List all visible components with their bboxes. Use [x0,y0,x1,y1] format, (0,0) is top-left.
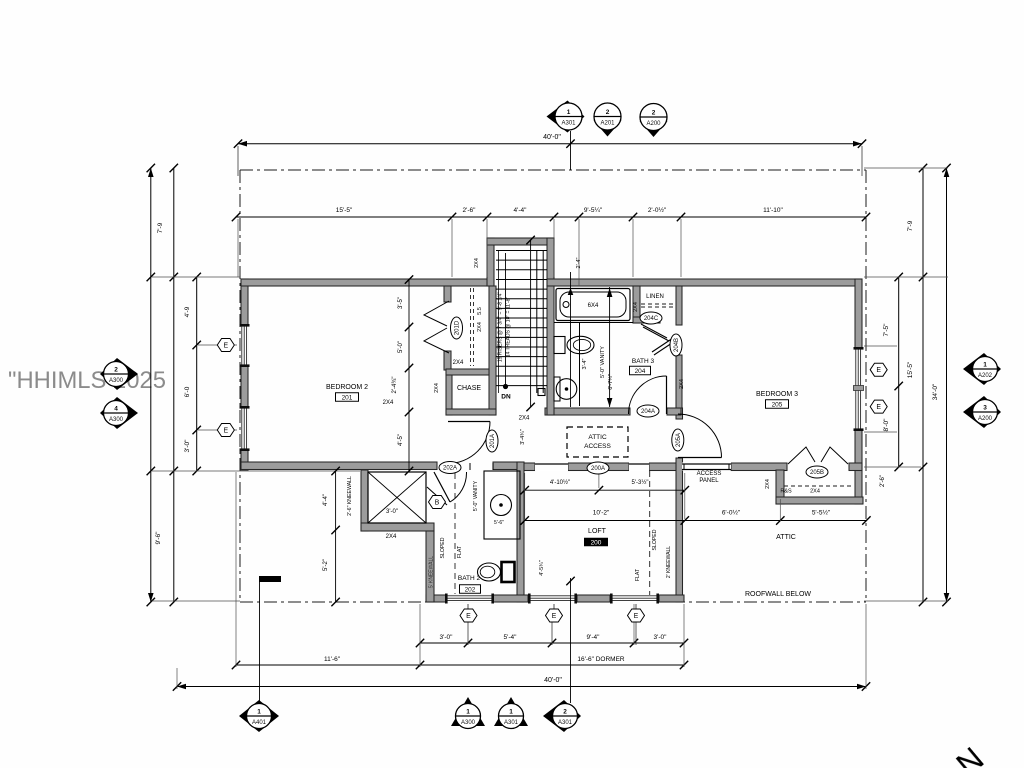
svg-text:A300: A300 [109,417,124,423]
svg-text:ATTIC: ATTIC [588,434,607,441]
svg-text:201: 201 [342,395,353,402]
svg-text:2'-6" KNEEWALL: 2'-6" KNEEWALL [347,476,353,516]
svg-text:FLAT: FLAT [457,545,463,558]
svg-text:5'-0": 5'-0" [398,341,404,353]
svg-text:5'-6": 5'-6" [494,520,504,526]
svg-text:2X4: 2X4 [383,400,394,406]
svg-text:5' KNEEWALL: 5' KNEEWALL [429,556,435,588]
svg-text:E: E [223,428,228,435]
svg-text:2'-0½": 2'-0½" [648,206,667,214]
svg-text:E: E [876,367,881,374]
svg-text:204C: 204C [644,316,659,322]
svg-text:10'-2": 10'-2" [593,510,610,517]
svg-text:BATH 3: BATH 3 [632,358,655,365]
svg-text:1: 1 [509,709,513,716]
svg-text:2X4: 2X4 [679,379,685,389]
svg-text:3'-4¾": 3'-4¾" [520,429,526,445]
svg-text:5'-0" VANITY: 5'-0" VANITY [473,480,479,511]
svg-text:ACCESS: ACCESS [697,471,722,477]
svg-text:1: 1 [257,709,261,716]
svg-text:A301: A301 [561,121,576,127]
svg-text:2X4: 2X4 [765,479,771,489]
svg-text:5'-4": 5'-4" [504,634,518,641]
svg-text:2X4: 2X4 [519,416,530,422]
svg-text:2X4: 2X4 [633,302,639,312]
svg-text:3'-5": 3'-5" [398,297,404,309]
svg-text:ACCESS: ACCESS [584,443,611,450]
svg-text:3'-0": 3'-0" [386,509,398,515]
svg-text:1: 1 [983,362,987,369]
svg-text:3'-0": 3'-0" [184,439,191,453]
svg-text:5'-0" VANITY: 5'-0" VANITY [600,346,606,378]
svg-text:2X4: 2X4 [453,360,464,366]
svg-text:11'-10": 11'-10" [763,207,783,214]
svg-text:CHASE: CHASE [457,385,481,392]
svg-text:4'-5": 4'-5" [398,434,404,446]
svg-text:2: 2 [114,367,118,374]
svg-text:5'-5½": 5'-5½" [812,509,831,517]
svg-text:7'-9: 7'-9 [157,222,164,233]
svg-text:2'-6": 2'-6" [880,475,886,487]
svg-text:204: 204 [635,368,646,375]
svg-text:A301: A301 [504,720,519,726]
svg-text:BEDROOM 2: BEDROOM 2 [326,384,368,391]
svg-text:3'-0": 3'-0" [654,634,668,641]
svg-text:2X4: 2X4 [477,322,483,332]
svg-text:3'-4": 3'-4" [582,358,588,369]
svg-text:5'-3½": 5'-3½" [632,479,649,486]
svg-text:"HHIMLS 2025: "HHIMLS 2025 [8,367,166,394]
svg-text:A200: A200 [978,416,993,422]
svg-text:A201: A201 [600,121,615,127]
svg-text:E: E [552,613,557,620]
svg-text:BEDROOM 3: BEDROOM 3 [756,391,798,398]
svg-text:7'-9: 7'-9 [907,220,914,231]
svg-text:A202: A202 [978,373,993,379]
svg-text:15'-5": 15'-5" [907,361,914,378]
svg-text:40'-0": 40'-0" [543,134,561,141]
svg-text:205B: 205B [810,470,824,476]
svg-text:BATH 2: BATH 2 [458,575,481,582]
svg-text:LOFT: LOFT [588,528,607,535]
svg-text:5'-2": 5'-2" [323,559,329,571]
svg-text:2'-6": 2'-6" [463,207,477,214]
svg-text:4: 4 [114,406,118,413]
svg-text:202A: 202A [443,466,457,472]
svg-text:40'-0": 40'-0" [544,677,562,684]
svg-text:LINEN: LINEN [646,294,664,300]
svg-text:SLOPED: SLOPED [652,529,658,550]
svg-text:2: 2 [606,109,610,116]
svg-text:2'-4": 2'-4" [576,257,582,268]
svg-text:8'-0": 8'-0" [883,418,890,432]
svg-text:1: 1 [466,709,470,716]
svg-text:3: 3 [983,405,987,412]
svg-text:E: E [466,613,471,620]
svg-text:FLAT: FLAT [635,568,641,581]
svg-text:201D: 201D [455,320,461,335]
svg-text:4'-9: 4'-9 [184,306,191,317]
svg-text:6'-7¾": 6'-7¾" [608,374,614,390]
svg-text:34'-0": 34'-0" [932,383,939,400]
svg-text:3'-0": 3'-0" [440,634,454,641]
svg-text:9'-5¼": 9'-5¼" [584,207,603,214]
svg-text:2: 2 [652,110,656,117]
svg-text:A200: A200 [646,121,661,127]
svg-text:A401: A401 [252,720,267,726]
svg-text:ATTIC: ATTIC [776,534,796,541]
svg-text:204A: 204A [641,409,655,415]
svg-text:7'-5": 7'-5" [883,323,890,337]
svg-text:ROOFWALL BELOW: ROOFWALL BELOW [745,591,811,598]
svg-text:E: E [634,613,639,620]
svg-text:200: 200 [591,540,602,547]
svg-text:2X4: 2X4 [474,258,480,268]
svg-text:4'-10½": 4'-10½" [550,479,570,486]
svg-text:2X4: 2X4 [810,489,820,495]
svg-text:PANEL: PANEL [699,478,719,484]
svg-text:9'-6": 9'-6" [155,531,162,545]
svg-text:16'-6" DORMER: 16'-6" DORMER [577,656,625,663]
svg-text:2X4: 2X4 [434,383,440,393]
svg-text:200A: 200A [591,466,605,472]
svg-text:E: E [223,343,228,350]
svg-text:R&S: R&S [780,489,792,495]
svg-text:4'-4": 4'-4" [323,494,329,506]
svg-text:15'-5": 15'-5" [336,207,353,214]
svg-text:202: 202 [465,587,476,594]
svg-text:2'-4¾": 2'-4¾" [392,377,398,394]
svg-text:204B: 204B [674,338,680,352]
svg-text:A301: A301 [558,720,573,726]
svg-text:205A: 205A [676,433,682,447]
svg-text:2' KNEEWALL: 2' KNEEWALL [666,546,672,578]
svg-text:15 RISERS @ 7 3/4" = 9'-8 1/4": 15 RISERS @ 7 3/4" = 9'-8 1/4" [498,292,504,363]
svg-text:2X4: 2X4 [386,534,397,540]
svg-text:4'-5¾": 4'-5¾" [539,560,545,576]
svg-text:6'-0½": 6'-0½" [722,509,741,517]
svg-text:E: E [876,404,881,411]
svg-text:DN: DN [501,394,511,401]
svg-text:14 TREADS @ 10" = 11'-8": 14 TREADS @ 10" = 11'-8" [506,297,512,358]
svg-text:2: 2 [563,709,567,716]
svg-text:6'-0: 6'-0 [184,386,191,397]
svg-text:9'-4": 9'-4" [587,634,601,641]
svg-text:205: 205 [772,402,783,409]
svg-text:A300: A300 [109,378,124,384]
svg-text:A300: A300 [461,720,476,726]
svg-text:11'-6": 11'-6" [324,656,341,663]
svg-text:B: B [435,500,440,507]
svg-text:1: 1 [567,109,571,116]
svg-text:6X4: 6X4 [588,303,599,309]
svg-text:5.5: 5.5 [477,307,483,315]
svg-text:201A: 201A [490,434,496,448]
svg-text:SLOPED: SLOPED [440,537,446,558]
svg-text:4'-4": 4'-4" [514,207,528,214]
